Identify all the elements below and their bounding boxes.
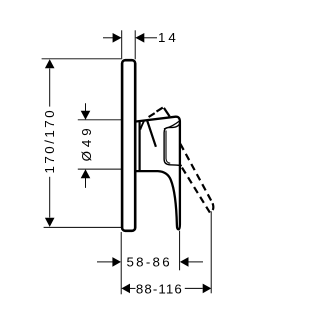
cap inner offset line — [166, 131, 170, 164]
dim 58-86 arrow left — [112, 257, 121, 267]
dim 170/170 top extension — [42, 58, 121, 60]
sleeve crescent detail — [140, 121, 144, 129]
dim d49 top extension — [78, 119, 121, 121]
svg-text:88-116: 88-116 — [136, 282, 183, 297]
dim 58-86 leader right — [188, 261, 203, 263]
dim 88-116 arrow right — [203, 284, 212, 294]
extension line below handle tip — [179, 231, 181, 271]
dim 170/170 arrow down — [45, 218, 55, 227]
dim d49 arrow up — [81, 169, 91, 178]
dim 58-86 arrow right — [180, 257, 189, 267]
dim d49 top stub — [85, 103, 87, 111]
extension line below dashed lever tip — [210, 211, 212, 293]
extension line below plate — [120, 232, 122, 294]
dashed lever open edge B — [180, 164, 210, 212]
dim d49 bottom stub — [85, 178, 87, 188]
dim 88-116 line left stub — [130, 287, 136, 289]
dim 170/170 line lower — [49, 177, 51, 218]
dim 58-86 leader left — [97, 261, 113, 263]
dim d49 arrow down — [81, 111, 91, 120]
wall escutcheon plate — [122, 60, 135, 231]
dim 170/170 line upper — [49, 69, 51, 107]
svg-text:Ø49: Ø49 — [79, 124, 94, 161]
dim 14 leader right — [144, 37, 157, 39]
handle body outline — [136, 117, 180, 230]
dashed lever open tip arc — [210, 203, 213, 212]
lever rear diagonal — [147, 121, 156, 147]
cap top line — [168, 123, 180, 127]
dim 170/170 arrow up — [45, 59, 55, 68]
dim 88-116 arrow left — [121, 284, 130, 294]
dim 88-116 line right stub — [185, 287, 203, 289]
sleeve base vertical — [139, 121, 141, 171]
dim 14 extension line right — [134, 30, 136, 59]
svg-text:14: 14 — [158, 30, 179, 45]
svg-text:58-86: 58-86 — [126, 255, 172, 270]
dim d49 bottom extension — [78, 168, 121, 170]
dim 14 extension line left — [121, 30, 123, 59]
svg-text:170/170: 170/170 — [42, 108, 57, 174]
cap outer outline — [164, 128, 182, 166]
dim 14 arrow left — [113, 33, 122, 43]
dashed lever raised edge 2 dash — [164, 108, 170, 117]
dashed lever raised edge 1 dash a — [149, 113, 155, 117]
dim 14 leader left — [103, 37, 113, 39]
dim 14 arrow right — [135, 33, 144, 43]
cap corner chamfer — [164, 121, 180, 129]
dim 170/170 bottom extension — [44, 226, 121, 228]
dashed lever raised edge 1 dash b — [157, 108, 163, 112]
dashed lever open edge A — [180, 144, 212, 203]
